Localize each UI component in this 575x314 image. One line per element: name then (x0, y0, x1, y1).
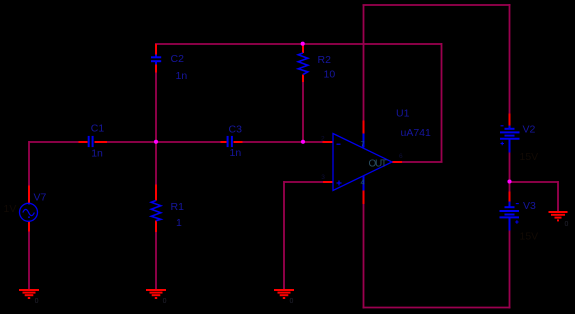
svg-text:R1: R1 (171, 201, 185, 213)
svg-text:U1: U1 (396, 108, 410, 120)
svg-text:6: 6 (399, 153, 403, 160)
svg-text:1n: 1n (230, 147, 242, 159)
svg-text:0: 0 (35, 298, 39, 305)
svg-text:4: 4 (361, 177, 365, 186)
svg-text:uA741: uA741 (401, 127, 432, 139)
svg-text:7: 7 (361, 139, 365, 148)
svg-text:OUT: OUT (369, 159, 388, 170)
svg-text:1: 1 (176, 217, 182, 229)
svg-text:V2: V2 (523, 123, 536, 135)
svg-text:1n: 1n (176, 70, 188, 82)
svg-text:R2: R2 (318, 54, 332, 66)
svg-text:10: 10 (324, 69, 336, 81)
svg-text:C1: C1 (91, 123, 105, 135)
svg-text:1n: 1n (91, 147, 103, 159)
svg-text:C2: C2 (171, 53, 185, 65)
svg-text:C3: C3 (229, 124, 243, 136)
svg-text:1V: 1V (4, 203, 17, 215)
svg-text:V3: V3 (523, 200, 536, 212)
svg-text:3: 3 (321, 174, 325, 181)
svg-text:15V: 15V (520, 230, 539, 242)
svg-text:V7: V7 (34, 192, 47, 204)
svg-text:0: 0 (565, 221, 569, 228)
svg-text:15V: 15V (520, 151, 539, 163)
svg-text:0: 0 (290, 298, 294, 305)
svg-text:2: 2 (321, 135, 325, 142)
svg-text:0: 0 (163, 298, 167, 305)
